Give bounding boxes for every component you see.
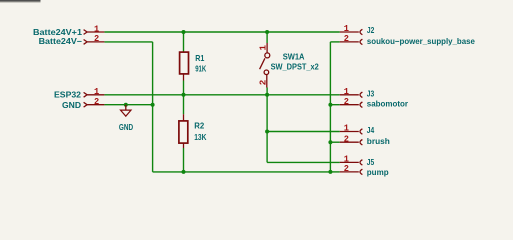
pin 2 Batte24V- (84, 40, 105, 45)
wire J4 pin1 row (267, 131, 340, 133)
wire switch column (266, 95, 268, 163)
svg-text:1: 1 (258, 45, 269, 51)
wire SW1A bottom (266, 88, 268, 95)
junction SW1A bottom (265, 93, 269, 97)
svg-text:2: 2 (344, 96, 349, 107)
wire J4 pin2 stub (330, 141, 339, 143)
svg-text:Batte24V+1: Batte24V+1 (33, 28, 82, 37)
connector J2 pin 2 (340, 39, 363, 44)
svg-text:GND: GND (119, 123, 133, 132)
switch SW1A (260, 43, 270, 88)
svg-text:J3: J3 (367, 90, 375, 99)
svg-text:sabomotor: sabomotor (367, 100, 409, 109)
wire R2 bottom (183, 148, 185, 172)
connector J2 pin 1 (340, 29, 363, 34)
svg-text:R2: R2 (194, 122, 204, 131)
connector J3 pin 1 (340, 92, 363, 97)
pin 2 GND (84, 102, 105, 107)
connector J4 pin 2 (340, 140, 363, 145)
wire ESP32 row (104, 94, 339, 96)
connector J5 pin 1 (340, 160, 363, 165)
svg-text:brush: brush (367, 137, 390, 146)
wire SW1A top (266, 32, 268, 43)
wire bottom return row (153, 171, 331, 173)
wire R1 top (183, 32, 185, 52)
svg-text:Batte24V−: Batte24V− (39, 37, 83, 46)
svg-text:R1: R1 (195, 54, 204, 63)
wire J5 pin1 row (267, 161, 340, 163)
wire GND row segment (104, 104, 152, 106)
wire R1 bottom (183, 81, 185, 95)
ground (121, 105, 132, 117)
svg-text:2: 2 (344, 33, 349, 44)
connector J4 pin 1 (340, 129, 363, 134)
svg-text:2: 2 (94, 33, 99, 44)
svg-text:2: 2 (344, 133, 349, 144)
svg-text:2: 2 (258, 80, 269, 86)
svg-text:2: 2 (344, 163, 349, 174)
svg-text:SW_DPST_x2: SW_DPST_x2 (271, 62, 320, 71)
svg-text:ESP32: ESP32 (54, 91, 81, 100)
wire right return column (329, 42, 331, 172)
svg-text:1: 1 (344, 123, 350, 134)
junction J4 pin1 (265, 130, 269, 134)
svg-text:91K: 91K (195, 64, 206, 73)
wire R2 top (183, 95, 185, 114)
svg-text:J2: J2 (367, 26, 375, 35)
connector J3 pin 2 (340, 102, 363, 107)
junction J3 pin2 (328, 103, 332, 107)
svg-text:soukou−power_supply_base: soukou−power_supply_base (367, 37, 475, 46)
junction R2 bottom (182, 170, 186, 174)
connector J5 pin 2 (340, 169, 363, 174)
pin 1 ESP32 (84, 92, 105, 97)
junction GND tap (124, 103, 128, 107)
wire Batte24V- horizontal segment (104, 41, 152, 43)
junction R1 top (182, 30, 186, 34)
junction J4 pin2 (328, 140, 332, 144)
wire net Batte24V+ row (104, 31, 339, 33)
junction GND row / left column (151, 103, 155, 107)
junction R1/R2 node (182, 93, 186, 97)
svg-text:J5: J5 (367, 158, 375, 167)
pin 1 Batte24V+1 (84, 30, 105, 35)
svg-text:13K: 13K (194, 133, 206, 142)
svg-text:SW1A: SW1A (283, 53, 305, 62)
screen artifact bar top-left (0, 0, 41, 3)
wire J2 pin2 stub (330, 41, 339, 43)
svg-text:pump: pump (367, 168, 389, 177)
svg-text:2: 2 (94, 96, 99, 107)
wire J5 pin2 stub (330, 171, 339, 173)
svg-text:J4: J4 (367, 126, 375, 135)
junction SW1A top (265, 30, 269, 34)
resistor R2 (179, 114, 188, 148)
wire J3 pin2 stub (330, 104, 339, 106)
svg-text:GND: GND (62, 101, 81, 110)
wire Batte24V- vertical left column (152, 42, 154, 172)
resistor R1 (180, 52, 189, 80)
junction J5 pin2 (328, 170, 332, 174)
